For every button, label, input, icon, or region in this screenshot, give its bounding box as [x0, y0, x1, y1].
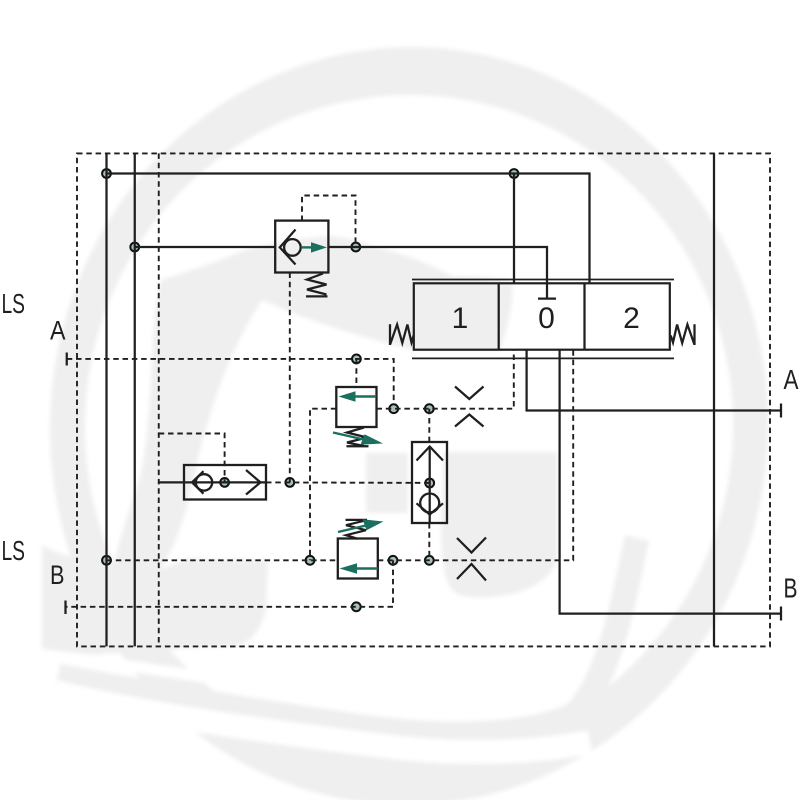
junction nodes (under the wires): [102, 169, 518, 611]
wire LS gallery dashed vertical: [158, 153, 160, 646]
node D1: [102, 169, 111, 178]
wire shuttle LS branch: [159, 434, 225, 483]
wire LS-A dashed port line: [67, 359, 394, 404]
port B end tick: [780, 607, 782, 621]
wire LS-B line: [107, 559, 338, 561]
wire T return vertical: [713, 153, 715, 646]
wire shuttle feed solid: [159, 481, 266, 483]
shuttle check SC body: [184, 465, 266, 500]
node D10: [425, 479, 434, 488]
node D15: [352, 602, 361, 611]
wire H1 top feed: [107, 174, 590, 284]
svg-text:LS: LS: [2, 288, 25, 319]
node D3: [351, 243, 360, 252]
node D9: [220, 478, 229, 487]
svg-text:2: 2: [623, 302, 640, 335]
node D8: [285, 478, 294, 487]
shuttle check SC seat: [192, 471, 204, 494]
wire check A pilot loop: [302, 196, 356, 248]
spool valve U1 top rail: [412, 279, 674, 281]
relief A adjust arrow: [333, 433, 366, 441]
spool valve U1 right spring: [671, 324, 695, 345]
relief valve RVA spring: [347, 428, 369, 447]
relief valve RVA body: [336, 387, 376, 427]
node D2: [130, 243, 139, 252]
port B left tick: [64, 601, 66, 615]
wire vertical check top pilot: [428, 409, 430, 444]
node D4: [510, 169, 519, 178]
check valve C1 spring: [306, 274, 328, 297]
svg-text:B: B: [50, 560, 65, 590]
wire H2 to check valve: [135, 246, 275, 248]
wire check A lower pilot: [289, 273, 291, 483]
spool valve U1 body: [414, 283, 670, 349]
throttle A chevrons: [455, 387, 484, 400]
outer dashed enclosure: [77, 153, 770, 646]
node D12: [306, 556, 315, 565]
node D11: [102, 556, 111, 565]
spool valve U1 divider 0/2: [583, 283, 585, 349]
wire vertical check bottom: [428, 523, 430, 560]
node D13: [389, 556, 398, 565]
wire H2 check valve to spool: [328, 247, 547, 283]
wire port B branch down: [66, 560, 394, 607]
relief B internal arrow: [356, 567, 378, 569]
spool valve U1 divider 1/0: [498, 283, 500, 349]
check valve C1 seat: [280, 230, 296, 265]
wire spool to port B: [560, 350, 781, 614]
check valve C1 body: [275, 221, 328, 273]
wire relief A pilot drop: [355, 359, 357, 387]
node D7: [425, 404, 434, 413]
relief B adjust arrow: [338, 525, 368, 532]
node D14: [425, 556, 434, 565]
svg-text:A: A: [50, 316, 66, 346]
shuttle check SC arrow chevron: [246, 470, 261, 495]
relief valve RVB spring: [346, 520, 368, 539]
throttle B chevrons: [457, 538, 486, 553]
spool valve U1 bottom rail: [412, 357, 674, 359]
wire P2 vertical: [134, 153, 136, 646]
teal arrows: [302, 242, 384, 574]
check A flow arrow: [302, 246, 312, 248]
pilot check valve PC seat: [417, 503, 444, 514]
svg-text:B: B: [784, 573, 798, 604]
pilot check valve PC ball: [420, 494, 439, 513]
wire shuttle output pilot dashed: [266, 481, 430, 484]
svg-text:LS: LS: [2, 535, 26, 566]
spool valve U1 blocked port T symbol: [546, 283, 548, 298]
check valve C1 ball: [284, 239, 301, 256]
wire valve feed from H1 node: [513, 174, 515, 284]
pilot check valve PC body: [412, 442, 447, 523]
svg-text:A: A: [784, 364, 799, 395]
shuttle check SC ball: [196, 474, 212, 490]
wire spool to port A: [527, 350, 781, 411]
relief A internal arrow: [353, 395, 376, 397]
svg-text:1: 1: [452, 302, 469, 335]
node D6: [389, 404, 398, 413]
port A left tick: [66, 353, 68, 366]
wire relief A output to spool: [377, 350, 514, 409]
spool valve U1 left spring: [390, 324, 414, 345]
wire P1 vertical: [105, 153, 107, 646]
wire relief A left segment and drop to LS-B: [310, 409, 336, 561]
pilot check valve PC poppet arrow: [417, 447, 444, 461]
svg-text:0: 0: [538, 302, 555, 335]
node D5: [352, 355, 361, 364]
port A end tick: [780, 404, 782, 418]
relief valve RVB body: [338, 539, 378, 579]
